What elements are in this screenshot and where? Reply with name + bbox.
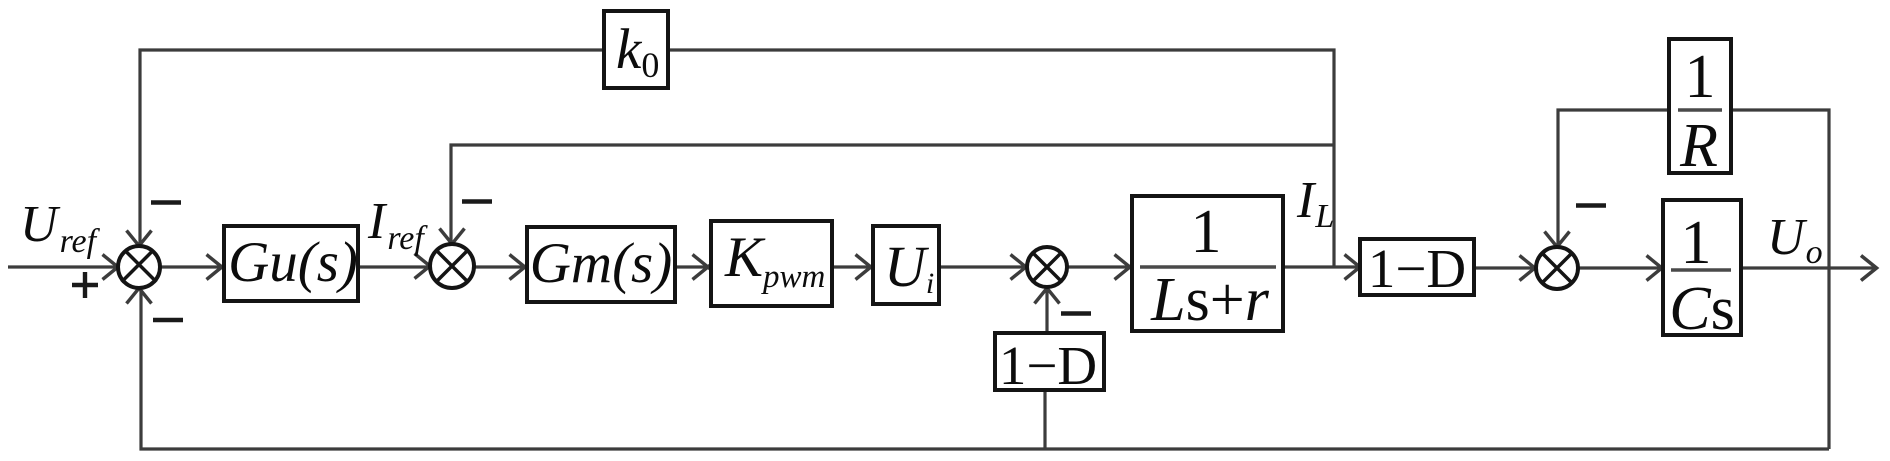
- wire second feedback line down to summer2: [451, 145, 1334, 243]
- svg-text:1: 1: [1681, 209, 1712, 277]
- wire bottom feedback: [141, 290, 1829, 449]
- wire Ls+r to 1-D with node at x=1334: [1283, 265, 1358, 268]
- svg-text:1−D: 1−D: [1368, 238, 1466, 299]
- block 1/Cs: [1663, 200, 1741, 335]
- arrowhead into Ui block: [856, 255, 878, 280]
- wire summer2 to Gm: [475, 265, 525, 268]
- svg-text:IL: IL: [1296, 172, 1334, 235]
- svg-text:Iref: Iref: [367, 193, 428, 257]
- svg-text:R: R: [1679, 112, 1718, 180]
- wire input: [8, 265, 116, 268]
- block 1-D lower: [995, 333, 1104, 390]
- summing junction S3: [1027, 247, 1067, 287]
- arrowhead into Gu block: [207, 255, 229, 280]
- arrowhead into 1-D block: [1345, 255, 1367, 280]
- wire lower 1-D to summer3: [1045, 290, 1048, 333]
- wire 1/R loop left down to summer4: [1558, 110, 1669, 245]
- sign minus below summer3: [1061, 311, 1091, 315]
- arrowhead into Gm block: [510, 255, 532, 280]
- svg-text:Gu(s): Gu(s): [228, 231, 358, 294]
- block Kpwm: [711, 221, 832, 306]
- wire summer3 to Ls+r block: [1068, 265, 1130, 268]
- sign minus above summer2: [462, 199, 492, 203]
- wire bottom to lower 1-D: [1043, 390, 1046, 449]
- wire 1-D to summer4: [1474, 266, 1533, 269]
- wire k0 feedback right segment down to IL node: [668, 50, 1334, 267]
- svg-text:Uo: Uo: [1767, 209, 1823, 271]
- wire 1/R loop right: [1733, 110, 1829, 268]
- sign minus above summer4: [1576, 203, 1606, 207]
- arrowhead output end: [1861, 256, 1877, 281]
- wire Gm to Kpwm: [675, 265, 708, 268]
- svg-text:Cs: Cs: [1669, 275, 1735, 343]
- arrowhead into summer4 top (pointing down): [1545, 232, 1570, 254]
- arrowhead into summer1 left: [103, 255, 125, 280]
- arrowhead into summer3 left: [1011, 255, 1033, 280]
- block Gu(s): [224, 226, 358, 301]
- arrowhead into summer4 left: [1520, 256, 1542, 281]
- svg-text:1: 1: [1191, 198, 1222, 266]
- wire output node down to bottom: [1827, 268, 1830, 449]
- svg-text:Uref: Uref: [20, 196, 101, 260]
- wire Ui to summer3: [939, 265, 1025, 268]
- wire Cs to output arrow: [1743, 266, 1874, 269]
- wire Kpwm to Ui: [833, 265, 871, 268]
- svg-text:Ls+r: Ls+r: [1150, 266, 1270, 334]
- arrowhead into summer3 bottom (pointing up): [1035, 282, 1060, 304]
- sign plus at summer1 input: [72, 272, 98, 298]
- summing junction S2: [430, 244, 474, 288]
- fraction bar of 1/R: [1678, 108, 1722, 112]
- arrowhead into summer2 left: [415, 254, 437, 279]
- arrowhead into Kpwm block: [693, 255, 715, 280]
- arrowhead into summer1 top (pointing down): [127, 231, 152, 253]
- arrowhead into summer1 bottom (pointing up): [127, 282, 152, 304]
- block 1/R: [1669, 39, 1731, 173]
- arrowhead into Cs block: [1647, 256, 1669, 281]
- fraction bar of 1/(Ls+r): [1140, 265, 1276, 269]
- block 1-D main path: [1360, 239, 1474, 295]
- wire k0 feedback left segment and drop to summer1: [140, 50, 604, 244]
- block Gm(s): [527, 227, 675, 302]
- arrowhead into Ls+r block: [1115, 255, 1137, 280]
- wire summer1 to Gu: [161, 265, 222, 268]
- block 1/(Ls+r): [1132, 196, 1283, 331]
- summing junction S1: [118, 246, 160, 288]
- sign minus below summer1: [153, 318, 183, 322]
- arrowhead into summer2 top (pointing down): [440, 229, 465, 251]
- wire summer4 to Cs block: [1579, 266, 1661, 269]
- summing junction S4: [1536, 247, 1578, 289]
- svg-text:1−D: 1−D: [999, 335, 1097, 396]
- wire Gu to summer2: [358, 265, 428, 268]
- block k0: [604, 11, 668, 88]
- svg-text:Gm(s): Gm(s): [530, 232, 672, 295]
- fraction bar of 1/Cs: [1671, 268, 1731, 272]
- block Ui: [873, 226, 939, 304]
- sign minus above summer1: [151, 200, 181, 204]
- svg-text:1: 1: [1685, 43, 1716, 111]
